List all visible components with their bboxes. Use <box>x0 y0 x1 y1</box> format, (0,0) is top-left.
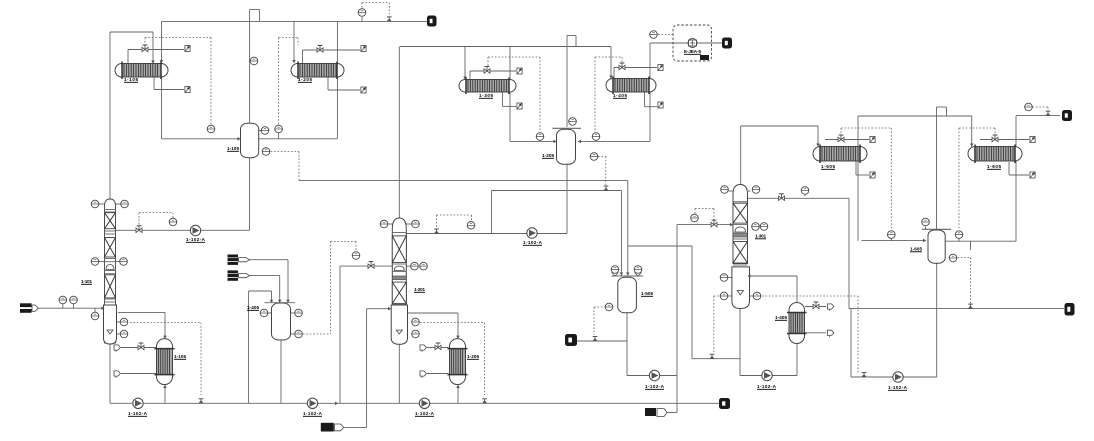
label D5-lab <box>641 291 653 296</box>
wire E6 vent <box>980 139 1029 141</box>
instrument e3sig <box>536 133 544 141</box>
signal package box <box>658 34 673 36</box>
signal C3 feed valve <box>695 209 714 220</box>
wire stems C1 sump <box>117 322 121 334</box>
wire D1 bottom <box>249 158 251 231</box>
wire R2 steam in <box>427 347 449 349</box>
flag e5a <box>870 137 875 143</box>
svg-text:1-102-A: 1-102-A <box>888 385 908 390</box>
wire R1 condensate <box>121 373 157 375</box>
wire line B to D5 <box>492 191 622 276</box>
instrument d6-2 <box>955 231 963 239</box>
label E4-lab <box>613 93 627 98</box>
signal C3 sump valve <box>714 296 720 352</box>
instrument c2rx <box>467 222 475 230</box>
wire E6 outlet <box>1016 116 1060 242</box>
column C2 <box>391 218 407 344</box>
wire product line D <box>849 308 1064 310</box>
flag e3b <box>517 103 522 109</box>
label P6 <box>645 384 665 389</box>
flag e5b <box>870 172 875 178</box>
svg-text:1-505: 1-505 <box>821 164 835 169</box>
svg-text:1-205: 1-205 <box>467 354 479 359</box>
svg-text:1-301: 1-301 <box>755 234 766 239</box>
flag e2a <box>361 46 366 52</box>
wire D6 side outlet <box>945 241 1016 250</box>
label R1-lab <box>174 354 186 359</box>
relief flag r1b <box>114 371 120 378</box>
connector pkg5 <box>722 38 732 49</box>
svg-text:1-405: 1-405 <box>613 93 627 98</box>
instrument c2sd <box>352 252 360 260</box>
wire R2 bottom <box>457 384 459 403</box>
instrument c2t-l <box>380 220 388 228</box>
D5 top nozzles <box>612 273 642 277</box>
flag e1a <box>185 46 190 52</box>
wire D6 feed <box>862 239 927 241</box>
instrument c2t-r <box>412 220 420 228</box>
connector bot5 <box>719 398 730 409</box>
label P7 <box>757 384 777 389</box>
wire Q1 line <box>577 340 627 342</box>
instrument c1f-3 <box>91 312 99 320</box>
instrument c3coll-2 <box>760 223 768 231</box>
valve v-e4 <box>619 63 625 70</box>
drum D6 <box>928 230 945 263</box>
svg-text:1-102-A: 1-102-A <box>645 384 665 389</box>
valve v-c3vap <box>779 194 785 201</box>
valve v-c1rx <box>136 226 142 233</box>
valve v-r4top <box>813 302 819 309</box>
wire reflux main line <box>116 229 250 231</box>
stem e4sig <box>595 140 597 143</box>
svg-text:1-102-A: 1-102-A <box>757 384 777 389</box>
signal E3 rail <box>488 57 540 132</box>
instrument d6lo <box>949 254 957 262</box>
wire E4 inlet <box>610 47 612 79</box>
svg-text:1-102-A: 1-102-A <box>128 411 148 416</box>
flag e3a <box>517 68 522 74</box>
label D4-lab <box>247 305 259 310</box>
label R4-lab <box>775 315 787 320</box>
instrument c3t-r <box>752 186 760 194</box>
label P2 <box>128 411 148 416</box>
valve v-e6 <box>992 135 998 142</box>
signal E6 rail <box>959 128 995 230</box>
instrument c3t-l <box>721 186 729 194</box>
label E2-lab <box>298 77 312 82</box>
label E1-lab <box>124 77 138 82</box>
wire bottom header <box>110 402 722 404</box>
wire E5 vent <box>825 139 869 141</box>
label P8 <box>888 385 908 390</box>
signal E6 product <box>1033 107 1049 111</box>
wire D6 top bar <box>922 228 951 230</box>
anchor a5 <box>968 304 973 309</box>
wire stems C1 mid <box>99 261 120 263</box>
label P5 <box>523 240 543 245</box>
anchor d2o <box>603 186 608 191</box>
reboiler R2 <box>448 339 468 385</box>
wire E3 outlet to D2 <box>510 47 557 142</box>
wire stems C1 feed insts <box>63 304 95 312</box>
instrument c2m-2 <box>420 262 428 270</box>
flag e1b <box>185 87 190 93</box>
wire C2 feed riser <box>367 309 391 428</box>
wire bottom feed riser <box>344 426 367 428</box>
heat exchanger E2 <box>291 62 344 80</box>
anchor a2 <box>482 399 487 404</box>
wire D2 riser with loop <box>567 36 576 128</box>
wire D4 recycle <box>249 291 272 403</box>
wire P6 discharge riser <box>627 225 733 376</box>
wire D1 riser with loop <box>250 10 260 124</box>
connector q1 <box>565 334 577 346</box>
wire P8 loop <box>851 263 937 377</box>
wire R4 vapor return <box>748 276 797 303</box>
instrument d1sig <box>275 125 283 133</box>
instrument c1s-1 <box>120 318 128 326</box>
wire C1 feed <box>39 307 105 309</box>
instrument d5t-r <box>634 266 642 274</box>
relief flag r4a <box>828 304 834 311</box>
pump P2 <box>133 398 143 408</box>
label PKG <box>684 49 701 54</box>
wire top vent stem <box>361 17 363 21</box>
instrument topv <box>358 9 366 17</box>
valve v-r2a <box>435 343 441 350</box>
heat exchanger E3 <box>459 78 516 95</box>
wire E6 drain <box>1009 162 1029 175</box>
label NPS <box>700 55 709 60</box>
stream flag feed1 <box>228 255 250 265</box>
valve v-e3 <box>484 67 490 74</box>
svg-text:1-101: 1-101 <box>81 279 92 284</box>
wire R4 flag lines <box>805 307 826 333</box>
instrument c2s-2 <box>412 330 420 338</box>
connector prodD <box>1065 303 1075 316</box>
package unit box <box>673 25 712 61</box>
label P1 <box>186 237 206 242</box>
label D2-lab <box>542 153 554 158</box>
instrument sig1 <box>207 125 215 133</box>
signal E5 rail <box>841 128 891 230</box>
connector e6-5 <box>1062 110 1072 121</box>
svg-text:1-201: 1-201 <box>414 287 425 292</box>
anchor top <box>387 17 392 22</box>
label R2-lab <box>467 354 479 359</box>
arrowheads <box>102 60 974 405</box>
drum D2 <box>557 129 576 164</box>
svg-text:1-105: 1-105 <box>174 354 186 359</box>
svg-text:1-102-A: 1-102-A <box>523 240 543 245</box>
signal C1 level <box>130 323 201 395</box>
instrument e6pr <box>1025 103 1033 111</box>
wire D5 to C3 bottoms <box>628 246 740 359</box>
instrument c1m-l <box>91 258 99 266</box>
relief flag r2a <box>420 345 426 352</box>
wire stem d1sig <box>278 133 280 139</box>
instrument d6t <box>922 218 930 226</box>
signal C3 vapor <box>804 195 806 199</box>
wire R1 steam in <box>121 347 157 349</box>
signal D5 level <box>594 307 605 335</box>
wire R2 condensate <box>427 373 449 375</box>
label C2 <box>414 287 425 292</box>
pump P5 <box>527 228 537 238</box>
wire C3 riser <box>741 126 818 186</box>
flag e6b <box>1030 172 1035 178</box>
wire D5 top bar <box>612 275 644 277</box>
signal C2 level <box>420 323 485 395</box>
stream flag feed2 <box>228 270 250 280</box>
wire stems C2 top <box>388 223 412 225</box>
anchor c2rx <box>434 229 439 234</box>
wire to package box <box>650 42 722 44</box>
wire D4 bottom outlet <box>280 340 282 403</box>
wire C2 overhead pump line <box>407 164 568 233</box>
svg-text:1-605: 1-605 <box>987 164 1001 169</box>
wire E2 inlet <box>293 22 295 64</box>
wire overhead header C2 <box>400 46 611 48</box>
instrument c3m-3 <box>753 292 761 300</box>
stream flag C1 feed <box>20 303 38 313</box>
label E6-lab <box>987 164 1001 169</box>
instrument c1t-l <box>91 200 99 208</box>
signal C1 reflux <box>139 213 173 226</box>
instrument c1f-2 <box>70 296 78 304</box>
wire C2 bottom outlet <box>398 344 400 403</box>
relief flag r4b <box>828 330 834 337</box>
svg-text:1-102-A: 1-102-A <box>415 411 435 416</box>
wire E1 drain line <box>154 77 184 90</box>
wire stems C2 mid <box>407 265 411 267</box>
flag e2b <box>361 87 366 93</box>
wire D4 top bar <box>265 302 296 304</box>
svg-text:1-102-A: 1-102-A <box>186 237 206 242</box>
wire overhead header C3 <box>858 116 972 241</box>
valve v-r1a <box>138 343 144 350</box>
signal D4 level <box>303 241 356 334</box>
wire E4 drain <box>645 92 657 107</box>
drum D5 <box>618 277 637 313</box>
label E3-lab <box>479 93 493 98</box>
wire stems C1 top <box>99 203 121 205</box>
pump P1 <box>190 225 200 235</box>
instrument d6-1 <box>888 231 896 239</box>
instrument pkg <box>650 31 658 39</box>
wire E2 drain line <box>328 77 360 90</box>
wire C2 to reboiler <box>408 313 459 339</box>
wire E1 vent line <box>128 50 184 64</box>
wire stems C3 top <box>729 190 751 192</box>
wire C3 vapor side line <box>748 198 850 308</box>
valve v-c2sd <box>368 262 374 269</box>
instrument e4sig <box>592 133 600 141</box>
instrument c1s-2 <box>120 330 128 338</box>
column C1 <box>104 199 117 344</box>
wire E3 vent <box>470 71 516 80</box>
valve v-e5 <box>838 135 844 142</box>
wire inst stems D6 <box>891 227 959 242</box>
column C3 <box>732 185 750 309</box>
wire C2 side draw <box>340 266 392 403</box>
instrument c3m-2 <box>720 292 728 300</box>
instrument c3coll-1 <box>752 223 760 231</box>
signal D1 side outlet <box>271 152 299 181</box>
wire E4 vent <box>614 68 657 79</box>
signal E2 rail <box>279 38 298 126</box>
wire E2 outlet drop <box>259 22 338 139</box>
wire D6 riser with loop <box>937 107 947 229</box>
wire E3 inlet <box>464 47 466 80</box>
instrument d5t-l <box>611 266 619 274</box>
label C1 <box>81 279 92 284</box>
drum D1 <box>241 123 259 158</box>
signal E4 rail <box>595 57 622 132</box>
pump P6 <box>649 370 659 380</box>
heat exchanger E1 <box>115 62 168 80</box>
wire C1 to reboiler <box>118 312 165 338</box>
wire E4 outlet to D2 <box>578 43 650 141</box>
instrument c2m-1 <box>411 262 419 270</box>
signal C3 level <box>762 296 858 373</box>
wire feed1 to D4 <box>250 260 289 303</box>
instrument d1ris <box>250 57 258 65</box>
pump P7 <box>762 370 772 380</box>
pump P8 <box>893 372 903 382</box>
svg-text:1-205: 1-205 <box>298 77 312 82</box>
svg-text:E-JEA-5: E-JEA-5 <box>684 49 701 54</box>
instrument c1m-r <box>120 258 128 266</box>
flag e4b <box>658 102 663 108</box>
pump P3 <box>307 398 317 408</box>
signal D2 outlet <box>598 156 606 185</box>
instrument d4-r <box>295 309 303 317</box>
svg-text:1-102-A: 1-102-A <box>303 411 323 416</box>
label E5-lab <box>821 164 835 169</box>
label P4 <box>415 411 435 416</box>
reboiler R4 <box>787 303 807 344</box>
wire E5 drain <box>856 161 869 175</box>
relief flag r1a <box>114 345 120 352</box>
stem e3sig <box>539 140 541 143</box>
flag e6a <box>1030 137 1035 143</box>
svg-text:1-405: 1-405 <box>775 315 787 320</box>
flag e4a <box>658 65 663 71</box>
label P3 <box>303 411 323 416</box>
instrument d4-l <box>260 309 268 317</box>
label D1-lab <box>227 146 239 151</box>
svg-text:1-205: 1-205 <box>542 153 554 158</box>
wire line A to D5 <box>299 181 628 276</box>
instrument d2ris <box>569 118 577 126</box>
label D6-lab <box>910 247 922 252</box>
svg-text:1-305: 1-305 <box>479 93 493 98</box>
wire D5 bottom outlet <box>626 313 628 376</box>
reboiler R1 <box>155 339 175 385</box>
heat exchanger E4 <box>606 77 656 95</box>
wire C2 riser <box>398 47 400 219</box>
svg-text:1-405: 1-405 <box>247 305 259 310</box>
relief flag r2b <box>420 371 426 378</box>
instrument c1f-1 <box>59 296 67 304</box>
instrument c2s-1 <box>412 318 420 326</box>
wire D2 top bar <box>553 127 582 129</box>
valve v-e1 <box>142 45 148 52</box>
anchor a1 <box>198 399 203 404</box>
wire R1 bottom <box>164 384 166 403</box>
anchor e6p <box>1045 111 1050 116</box>
svg-text:1-605: 1-605 <box>910 247 922 252</box>
wire feed2 to D4 <box>250 276 280 303</box>
wire P7 loop <box>740 308 797 376</box>
svg-text:1-505: 1-505 <box>641 291 653 296</box>
stream flag bottom2 <box>645 408 667 417</box>
wire stems D1 <box>259 130 262 132</box>
drum D4 <box>272 303 291 340</box>
wire E3 drain <box>503 92 517 107</box>
connector top5 <box>427 16 437 27</box>
instrument c3m-1 <box>720 274 728 282</box>
wire C1 bottom outlet <box>109 344 111 404</box>
svg-text:1-105: 1-105 <box>124 77 138 82</box>
wire bottom flag2 line <box>667 376 677 413</box>
pump P4 <box>419 398 429 408</box>
heat exchanger E5 <box>813 145 867 164</box>
anchor q1v <box>592 337 597 342</box>
signal D6 lower <box>958 258 971 305</box>
instrument d1-r <box>261 127 269 135</box>
valve v-e2 <box>317 46 323 53</box>
instrument c3rx <box>691 214 699 222</box>
instrument c3vap <box>801 187 809 195</box>
instrument c1t-r <box>121 200 129 208</box>
heat exchanger E6 <box>968 145 1022 164</box>
wire stems D4 <box>268 313 294 334</box>
signal C2 reflux <box>437 215 472 228</box>
svg-text:1-105: 1-105 <box>227 146 239 151</box>
instrument d1-lo <box>262 148 270 156</box>
valve v-c3rx <box>711 220 717 227</box>
signal E1 rail <box>145 38 211 126</box>
label C3 <box>755 234 766 239</box>
anchor a4 <box>861 373 866 378</box>
wire E1 pass-through <box>161 22 163 64</box>
instrument d2-2 <box>590 153 598 161</box>
wire C1 riser <box>110 32 153 199</box>
anchor a3 <box>709 354 714 359</box>
wire E2 vent line <box>303 50 361 64</box>
stream flag feed 1A <box>321 423 344 432</box>
wire stems C3 mid <box>728 278 753 297</box>
instrument d5-l <box>605 303 613 311</box>
signal top vent <box>362 3 389 14</box>
wire E1 outlet drop <box>162 77 241 139</box>
wire overhead header C1 <box>162 20 428 22</box>
instrument c1rx <box>169 218 177 226</box>
instrument d4-lo <box>295 330 303 338</box>
